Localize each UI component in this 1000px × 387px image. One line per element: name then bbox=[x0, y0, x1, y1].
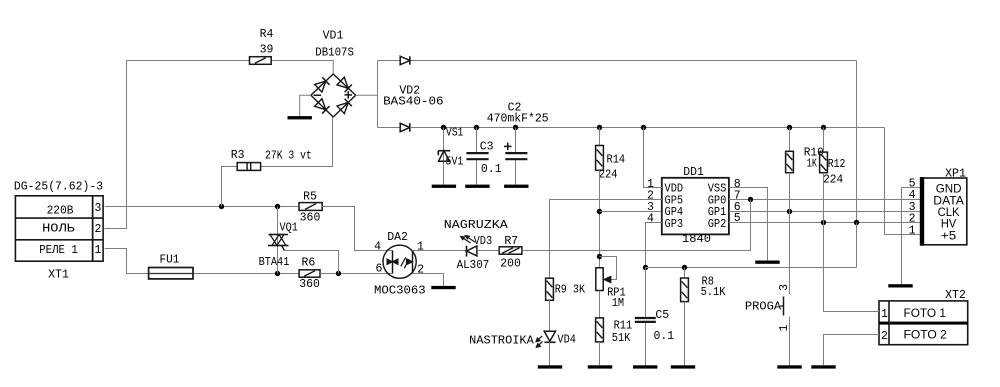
C5 label bbox=[655, 309, 669, 322]
XT1 row label RELE 1 bbox=[39, 244, 78, 257]
C3 label bbox=[480, 141, 494, 154]
svg-text:470mkF*25: 470mkF*25 bbox=[487, 113, 549, 126]
wire XT2 pin1 to HV node bbox=[824, 223, 880, 312]
svg-text:220В: 220В bbox=[47, 204, 74, 217]
wire R10 column top bbox=[789, 128, 791, 152]
VD1 plus sign bbox=[345, 91, 353, 99]
svg-text:R7: R7 bbox=[504, 235, 518, 248]
PROGA actuator stem bbox=[780, 305, 783, 307]
zener VS1 bbox=[438, 151, 450, 162]
wire branch up to R3 bbox=[222, 167, 238, 207]
svg-text:DA2: DA2 bbox=[387, 231, 408, 244]
svg-text:5: 5 bbox=[734, 212, 741, 225]
LED VD3 bbox=[467, 246, 477, 257]
R11 label bbox=[614, 320, 633, 333]
ground at R11 bbox=[588, 365, 612, 368]
svg-text:3: 3 bbox=[94, 202, 101, 215]
svg-text:VD4: VD4 bbox=[557, 333, 576, 346]
svg-text:224: 224 bbox=[823, 174, 843, 187]
wire R14 to RP1 bbox=[599, 170, 601, 267]
XT2 row label FOTO 1 bbox=[904, 306, 947, 320]
wire VD2 bottom branch start bbox=[378, 127, 401, 129]
R5 value 360 bbox=[300, 212, 321, 225]
R11 value 51K bbox=[612, 332, 631, 345]
DA2 coupling slashes bbox=[401, 257, 409, 268]
svg-text:2: 2 bbox=[94, 223, 101, 236]
VD1 label bbox=[323, 29, 344, 42]
wire R14 column top bbox=[599, 128, 601, 146]
VD3 label bbox=[474, 235, 493, 248]
resistor R6 bbox=[299, 270, 320, 277]
resistor R7 bbox=[499, 247, 522, 254]
svg-text:39: 39 bbox=[260, 43, 274, 56]
wire C3 column bbox=[476, 128, 478, 185]
DD1 pin number 4 bbox=[647, 213, 654, 226]
connector XT1 body bbox=[15, 196, 103, 261]
DD1 pin number 5 bbox=[734, 212, 741, 225]
capacitor C2 bbox=[505, 153, 527, 159]
DD1 label bbox=[683, 166, 704, 179]
wire C5 column bbox=[645, 268, 647, 366]
opto-triac DA2 circle bbox=[383, 245, 416, 278]
wire VDD from rail to DD1 pin1 bbox=[644, 128, 662, 188]
wire PROGA lower to ground bbox=[789, 317, 791, 366]
C2 plus sign bbox=[504, 143, 512, 151]
svg-text:0.1: 0.1 bbox=[654, 330, 675, 343]
svg-text:R6: R6 bbox=[301, 256, 315, 269]
VD4 label bbox=[557, 333, 576, 346]
XT1 pin 1 number bbox=[94, 244, 101, 257]
C5 value 0.1 bbox=[654, 330, 675, 343]
wire bridge left vertex to ground bbox=[300, 95, 311, 116]
VS1 label bbox=[446, 126, 464, 139]
R10 value 1K bbox=[807, 157, 817, 170]
wire RP1 to R11 bbox=[599, 291, 601, 318]
DD1 pin number 3 bbox=[647, 201, 654, 214]
svg-text:VD1: VD1 bbox=[323, 29, 344, 42]
wire R5 to DA2 pin4 bbox=[322, 207, 392, 251]
DD1 pin name VSS bbox=[708, 183, 727, 196]
svg-text:DB107S: DB107S bbox=[315, 47, 354, 60]
svg-text:XP1: XP1 bbox=[945, 167, 966, 180]
resistor R8 bbox=[681, 278, 689, 302]
wire GP4 line to DD1 bbox=[600, 211, 662, 213]
VD3 emission arrows bbox=[460, 236, 475, 244]
R7 value 200 bbox=[500, 257, 521, 270]
DA2 LED side bracket bbox=[412, 251, 414, 274]
svg-text:4: 4 bbox=[374, 240, 381, 253]
wire R12 to HV line bbox=[823, 173, 825, 223]
svg-text:BTA41: BTA41 bbox=[259, 256, 290, 269]
wire RELE1 from XT1 pin1 to FU1 bbox=[105, 249, 149, 274]
junction R8 node bbox=[682, 265, 687, 270]
DA2 pin 6 number bbox=[375, 262, 382, 275]
svg-text:1K: 1K bbox=[807, 157, 817, 170]
XT1 pin 2 number bbox=[94, 223, 101, 236]
wire R10 to GP1 and PROGA bbox=[789, 173, 791, 294]
DA2 pin 1 number bbox=[417, 240, 424, 253]
resistor R4 value 39 bbox=[260, 43, 274, 56]
PROGA pin 1 number bbox=[778, 325, 791, 332]
ground at C5 bbox=[633, 365, 657, 368]
DA2 internal LED bbox=[406, 259, 412, 265]
svg-text:R12: R12 bbox=[828, 158, 846, 171]
svg-text:R5: R5 bbox=[303, 191, 317, 204]
wire VD3 to R7 bbox=[477, 250, 499, 252]
svg-text:1: 1 bbox=[778, 325, 791, 332]
junction HV/R12 node bbox=[821, 220, 826, 225]
wire R4 to bridge top bbox=[271, 61, 333, 75]
resistor R12 bbox=[820, 152, 828, 173]
C2 value 470mkF*25 bbox=[487, 113, 549, 126]
svg-text:XT1: XT1 bbox=[48, 268, 69, 281]
wire R6 to DA2 pin6 bbox=[320, 273, 393, 275]
wire bridge right vertex bbox=[356, 94, 377, 96]
XP1 pin label HV bbox=[941, 217, 957, 231]
junction rail/C3 bbox=[474, 125, 479, 130]
NASTROIKA net label bbox=[469, 334, 534, 347]
XT2 title bbox=[945, 289, 966, 302]
potentiometer RP1 bbox=[596, 268, 603, 291]
svg-text:3: 3 bbox=[778, 284, 791, 291]
RP1 value 1M bbox=[612, 297, 624, 310]
XT1 row label 220V bbox=[47, 204, 74, 217]
wire FU1 to R6 line bbox=[193, 273, 299, 275]
capacitor C3 bbox=[466, 153, 488, 159]
svg-text:1: 1 bbox=[417, 240, 424, 253]
XP1 pin number 2 bbox=[909, 213, 916, 226]
XP1 pin label +5 bbox=[941, 228, 956, 242]
wire VD2 branch vertical bbox=[377, 61, 379, 128]
connector XT1 title DG-25(7.62)-3 bbox=[14, 181, 103, 194]
wire neutral from XT1 pin2 up to R4 bbox=[105, 61, 250, 229]
svg-text:C5: C5 bbox=[655, 309, 669, 322]
LED VD4 bbox=[544, 331, 555, 342]
resistor R11 bbox=[596, 318, 604, 342]
diode VD2 bottom half bbox=[400, 123, 410, 131]
ground at VD4 bbox=[538, 365, 562, 368]
wire GP0 DATA line bbox=[729, 199, 920, 201]
junction GP1/R10 node bbox=[787, 209, 792, 214]
DA2 internal triac bbox=[387, 259, 398, 265]
DD1 pin number 7 bbox=[734, 190, 741, 203]
wire R12 column top bbox=[823, 128, 825, 153]
svg-text:VS1: VS1 bbox=[446, 126, 464, 139]
ground at VS1 bbox=[432, 185, 456, 188]
DD1 pin name GP2 bbox=[708, 218, 727, 231]
svg-text:27K 3 vt: 27K 3 vt bbox=[265, 150, 312, 163]
XT2 pin 2 number bbox=[881, 330, 888, 343]
resistor R14 bbox=[596, 146, 604, 171]
wire VS1 column bbox=[443, 128, 445, 185]
junction VQ1 cathode on R6 line bbox=[275, 271, 280, 276]
XP1 title bbox=[945, 167, 966, 180]
wire 220V line from XT1 pin3 bbox=[105, 206, 299, 208]
svg-text:DG-25(7.62)-3: DG-25(7.62)-3 bbox=[14, 181, 103, 194]
svg-text:1M: 1M bbox=[612, 297, 624, 310]
svg-text:R3: R3 bbox=[231, 149, 245, 162]
XP1 pin number 3 bbox=[909, 201, 916, 214]
svg-text:5V1: 5V1 bbox=[446, 155, 464, 168]
VD2 value BAS40-06 bbox=[383, 96, 444, 109]
svg-text:6: 6 bbox=[375, 262, 382, 275]
ground at PROGA bbox=[777, 365, 801, 368]
DA2 value MOC3063 bbox=[374, 284, 426, 297]
svg-text:360: 360 bbox=[300, 212, 321, 225]
DD1 pin name GP0 bbox=[708, 195, 727, 208]
junction rail/R14 bbox=[597, 125, 602, 130]
svg-text:51K: 51K bbox=[612, 332, 631, 345]
XT1 ref label bbox=[48, 268, 69, 281]
ground at DA2 bbox=[431, 286, 455, 289]
wire GP2 HV line bbox=[729, 222, 920, 224]
svg-text:360: 360 bbox=[299, 278, 320, 291]
junction rail/R12 bbox=[821, 125, 826, 130]
VQ1 gate wire bbox=[285, 251, 339, 274]
R6 value 360 bbox=[299, 278, 320, 291]
resistor R3 label bbox=[231, 149, 245, 162]
VQ1 value BTA41 bbox=[259, 256, 290, 269]
svg-text:XT2: XT2 bbox=[945, 289, 966, 302]
resistor R9 bbox=[546, 278, 554, 300]
junction GP4 node bbox=[597, 209, 602, 214]
svg-text:1840: 1840 bbox=[682, 233, 711, 246]
junction HV/GP3 branch node bbox=[854, 220, 859, 225]
DD1 pin name GP4 bbox=[665, 206, 684, 219]
VD3 value AL307 bbox=[457, 259, 490, 272]
junction rail/VDD bbox=[641, 125, 646, 130]
DA2 pin 4 number bbox=[374, 240, 381, 253]
DD1 pin number 8 bbox=[734, 178, 741, 191]
XP1 pin label DATA bbox=[933, 194, 964, 208]
DD1 pin name GP5 bbox=[665, 195, 684, 208]
XP1 pin number 1 bbox=[909, 224, 916, 237]
resistor R3 bbox=[237, 163, 260, 171]
svg-text:R4: R4 bbox=[260, 28, 274, 41]
wire DA2 pin1 to VD3 bbox=[413, 250, 467, 252]
junction rail/R10 bbox=[787, 125, 792, 130]
svg-text:НОЛЬ: НОЛЬ bbox=[42, 222, 75, 235]
R9 label and value 3K bbox=[555, 284, 585, 297]
svg-text:1: 1 bbox=[94, 244, 101, 257]
svg-text:VD3: VD3 bbox=[474, 235, 493, 248]
junction rail/C2 bbox=[513, 125, 518, 130]
svg-text:1: 1 bbox=[881, 308, 888, 321]
resistor R5 bbox=[299, 203, 322, 211]
svg-text:4: 4 bbox=[647, 213, 654, 226]
wire XP1 GND to ground bbox=[902, 188, 921, 285]
DD1 pin name VDD bbox=[665, 183, 684, 196]
DD1 value 1840 bbox=[682, 233, 711, 246]
C3 value 0.1 bbox=[481, 163, 502, 176]
wire C2 column bbox=[515, 128, 517, 185]
junction GP3/C5 node bbox=[643, 265, 648, 270]
R12 label bbox=[828, 158, 846, 171]
wire R8 to ground bbox=[684, 302, 686, 366]
wire HV vertical down bbox=[856, 61, 858, 223]
FU1 label bbox=[159, 253, 179, 266]
svg-text:+5: +5 bbox=[941, 228, 956, 242]
VD1 minus sign bbox=[314, 94, 322, 96]
svg-text:FU1: FU1 bbox=[159, 253, 179, 266]
VD1 value DB107S bbox=[315, 47, 354, 60]
R6 label bbox=[301, 256, 315, 269]
DD1 pin number 1 bbox=[647, 178, 654, 191]
svg-text:AL307: AL307 bbox=[457, 259, 490, 272]
wire R8 column top bbox=[684, 268, 686, 279]
DA2 triac side bracket bbox=[392, 251, 394, 274]
ground at C2 bbox=[504, 185, 528, 188]
junction VQ1 anode on 220V line bbox=[275, 204, 280, 209]
capacitor C5 bbox=[635, 318, 656, 322]
VQ1 label bbox=[280, 221, 298, 234]
push button PROGA contact bar bbox=[783, 297, 785, 316]
wire DA2 pin2 to ground bbox=[413, 274, 444, 286]
XT1 pin 3 number bbox=[94, 202, 101, 215]
junction 220V/R3 branch bbox=[219, 204, 224, 209]
DD1 pin name GP1 bbox=[708, 206, 727, 219]
DA2 pin 2 number bbox=[417, 264, 424, 277]
XP1 pin label GND bbox=[936, 182, 962, 196]
wire XT2 pin2 to ground bbox=[824, 335, 880, 366]
XT1 row label NOL bbox=[42, 222, 75, 235]
svg-text:2: 2 bbox=[881, 330, 888, 343]
VD4 emission arrows bbox=[536, 336, 543, 348]
R5 label bbox=[303, 191, 317, 204]
resistor R4 bbox=[250, 57, 272, 65]
wire HV down to GP3 line bbox=[856, 223, 858, 268]
junction GP0/R7 node bbox=[748, 197, 753, 202]
wire GP5 line to R9 bbox=[550, 200, 662, 279]
svg-text:NASTROIKA: NASTROIKA bbox=[469, 334, 534, 347]
R8 value 5.1K bbox=[701, 286, 726, 299]
ground at R8 bbox=[671, 365, 695, 368]
svg-text:2: 2 bbox=[417, 264, 424, 277]
junction rail/VS1 bbox=[441, 125, 446, 130]
DA2 label bbox=[387, 231, 408, 244]
svg-text:R11: R11 bbox=[614, 320, 633, 333]
svg-text:1: 1 bbox=[909, 224, 916, 237]
svg-text:5.1K: 5.1K bbox=[701, 286, 726, 299]
RP1 label bbox=[607, 286, 626, 299]
wire RP1 wiper loop bbox=[600, 257, 617, 280]
XT2 pin 1 number bbox=[881, 308, 888, 321]
wire R9 to VD4 bbox=[549, 300, 551, 331]
R10 label bbox=[804, 147, 824, 160]
wire R3 to bridge bottom bbox=[261, 117, 333, 167]
R12 value 224 bbox=[823, 174, 843, 187]
svg-text:NAGRUZKA: NAGRUZKA bbox=[444, 219, 508, 232]
wire +5 rail bbox=[410, 127, 885, 129]
R14 value 224 bbox=[599, 169, 618, 182]
svg-text:РЕЛЕ 1: РЕЛЕ 1 bbox=[39, 244, 78, 257]
XP1 pin label CLK bbox=[938, 205, 961, 219]
svg-text:DD1: DD1 bbox=[683, 166, 704, 179]
svg-text:FOTO 2: FOTO 2 bbox=[904, 328, 948, 342]
svg-text:R14: R14 bbox=[607, 153, 626, 166]
wire rail to XP1 +5 bbox=[885, 128, 921, 235]
connector XP1 body bbox=[920, 177, 967, 246]
NAGRUZKA net label bbox=[444, 219, 508, 232]
fuse FU1 bbox=[149, 268, 193, 279]
wire R11 to ground bbox=[599, 342, 601, 365]
R14 label bbox=[607, 153, 626, 166]
svg-text:0.1: 0.1 bbox=[481, 163, 502, 176]
DD1 pin number 2 bbox=[647, 190, 654, 203]
DD1 pin name GP3 bbox=[665, 218, 684, 231]
junction VQ1 gate node bbox=[336, 271, 341, 276]
svg-text:MOC3063: MOC3063 bbox=[374, 284, 426, 297]
triac VQ1 bbox=[268, 207, 289, 274]
resistor R4 label bbox=[260, 28, 274, 41]
svg-text:224: 224 bbox=[599, 169, 618, 182]
IC DD1 body bbox=[662, 178, 729, 235]
resistor R3 value 27K 3 vt bbox=[265, 150, 312, 163]
junction RP1 wiper node bbox=[597, 254, 602, 259]
RP1 wiper arrow bbox=[604, 276, 611, 282]
svg-text:BAS40-06: BAS40-06 bbox=[383, 96, 444, 109]
svg-text:VQ1: VQ1 bbox=[280, 221, 298, 234]
svg-text:R9 3K: R9 3K bbox=[555, 284, 585, 297]
ground at XP1 bbox=[888, 284, 912, 287]
PROGA pin 3 number bbox=[778, 284, 791, 291]
VS1 value 5V1 bbox=[446, 155, 464, 168]
wire GP1 CLK line bbox=[729, 211, 920, 213]
connector XT2 body bbox=[879, 301, 968, 345]
XP1 pin number 4 bbox=[909, 189, 916, 202]
wire R7 to GP0 node bbox=[522, 200, 751, 251]
ground at bridge bbox=[288, 116, 312, 119]
R7 label bbox=[504, 235, 518, 248]
wire VD4 to ground bbox=[549, 342, 551, 365]
ground at C3 bbox=[465, 185, 489, 188]
ground at XT2 bbox=[811, 365, 835, 368]
XT2 row label FOTO 2 bbox=[904, 328, 948, 342]
svg-text:200: 200 bbox=[500, 257, 521, 270]
wire VSS to ground bbox=[729, 188, 768, 261]
wire VD2 top branch to HV corner bbox=[378, 60, 857, 62]
resistor R10 bbox=[786, 151, 794, 172]
svg-text:FOTO 1: FOTO 1 bbox=[904, 306, 947, 320]
XP1 pin number 5 bbox=[909, 177, 916, 190]
ground at VSS bbox=[755, 261, 779, 264]
svg-text:C3: C3 bbox=[480, 141, 494, 154]
svg-text:PROGA: PROGA bbox=[745, 301, 781, 314]
bridge rectifier VD1 bbox=[311, 74, 356, 117]
PROGA net label bbox=[745, 301, 781, 314]
wire GP3 from DD1 pin4 down bbox=[646, 223, 662, 268]
svg-text:GP2: GP2 bbox=[708, 218, 727, 231]
wire GP3 line right bbox=[646, 267, 857, 269]
C2 label bbox=[508, 101, 522, 114]
DD1 pin number 6 bbox=[734, 201, 741, 214]
VD2 label bbox=[399, 85, 420, 98]
R8 label bbox=[702, 275, 714, 288]
svg-text:GP3: GP3 bbox=[665, 218, 684, 231]
diode VD2 top half bbox=[400, 56, 410, 64]
